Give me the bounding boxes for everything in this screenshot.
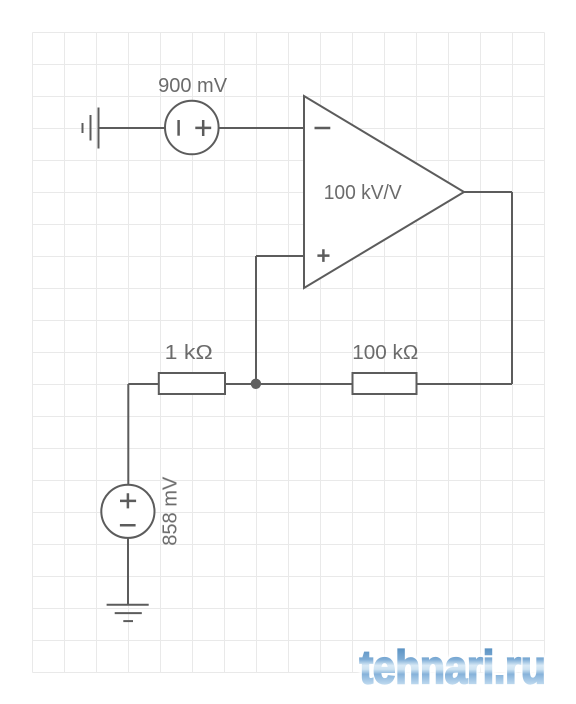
wire G1 to V1 [99, 127, 166, 129]
wire feedback bottom [416, 383, 512, 385]
voltage source V2 (858 mV) [101, 485, 154, 538]
wire R2 to R1 through node [225, 383, 353, 385]
wire feedback vertical [511, 192, 513, 384]
wire V2 to ground G2 [127, 538, 129, 605]
svg-text:tehnari.ru: tehnari.ru [360, 641, 546, 693]
resistor R2 (100 kOhm) [353, 373, 417, 394]
V1 minus terminal [177, 120, 180, 136]
U1 plus input symbol [317, 249, 329, 262]
wire U1 output [464, 191, 512, 193]
wire R1 to corner and down to V2 [128, 384, 159, 485]
ground G1 (left, rotated) [83, 108, 99, 149]
V2 minus terminal [120, 524, 136, 527]
svg-text:858 mV: 858 mV [160, 476, 182, 546]
svg-text:1 kΩ: 1 kΩ [165, 342, 213, 364]
voltage source V1 (900 mV) [165, 101, 219, 155]
V1 plus terminal [195, 120, 211, 136]
resistor R1 (1 kOhm) [159, 373, 225, 394]
svg-text:100 kΩ: 100 kΩ [352, 342, 418, 364]
svg-text:100 kV/V: 100 kV/V [324, 182, 403, 204]
wire V1 to op-amp inverting input [219, 127, 304, 129]
node N1 (junction dot) [251, 379, 261, 389]
U1 minus input symbol [315, 127, 331, 130]
ground G2 (bottom) [107, 605, 149, 621]
svg-text:900 mV: 900 mV [158, 75, 228, 97]
wire node to op-amp non-inverting input [256, 256, 304, 384]
op-amp U1 body [304, 96, 464, 288]
V2 plus terminal [120, 493, 136, 508]
